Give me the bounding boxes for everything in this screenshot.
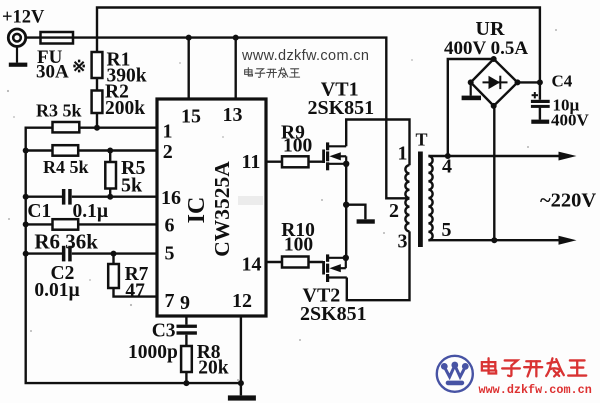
svg-text:2: 2 [163, 141, 173, 163]
svg-text:2SK851: 2SK851 [300, 303, 367, 325]
junction left bus / pin5 line [23, 251, 29, 257]
junction C4 positive / top rail [537, 79, 543, 85]
capacitor C4 plates [531, 100, 550, 108]
svg-text:~220V: ~220V [540, 190, 596, 212]
wire: pin14 gate line through R10 [266, 261, 323, 263]
svg-text:0.1µ: 0.1µ [73, 201, 109, 222]
svg-text:14: 14 [242, 254, 262, 276]
resistor R7 [108, 264, 119, 288]
ground bar at pin12 [228, 395, 256, 400]
wire: bridge bottom vertex drop to pin5 line [493, 106, 495, 240]
wire: pin16 line right of C1 [72, 195, 157, 197]
svg-text:13: 13 [223, 104, 243, 126]
svg-text:1: 1 [163, 121, 173, 143]
wire: R1-R2 chain column [96, 52, 98, 128]
junction bridge top vertex [491, 56, 497, 62]
resistor R2 [92, 91, 103, 114]
svg-text:CW3525A: CW3525A [210, 161, 234, 257]
junction source bus ground tap [343, 202, 349, 208]
svg-text:R3 5k: R3 5k [36, 101, 82, 121]
svg-text:200k: 200k [105, 98, 145, 119]
transformer T primary winding [405, 165, 409, 198]
svg-text:30A: 30A [36, 62, 69, 83]
svg-text:C3: C3 [152, 321, 176, 342]
junction pin13 on +12V line [233, 35, 239, 41]
svg-text:2SK851: 2SK851 [308, 97, 375, 119]
ground bar under C4 [531, 120, 549, 124]
wire: C3 to R8 [185, 335, 187, 346]
wire: common source column VT1-VT2 [345, 164, 347, 258]
wire: pin9 to C3 [185, 316, 187, 325]
wire: VT2 drain down and over to primary pin3 [347, 231, 410, 300]
svg-text:100: 100 [283, 136, 312, 157]
svg-text:0.01µ: 0.01µ [34, 280, 79, 301]
wire: pin6 line with R6 [26, 223, 157, 225]
C4 plus sign [532, 92, 538, 98]
wire: source ground tap [346, 205, 365, 220]
wire: pin5 line right of C2 [72, 252, 157, 254]
logo circle [437, 356, 473, 392]
IC U1 CW3525A body [157, 99, 266, 316]
capacitor C3 plates [177, 325, 197, 335]
wire: +12V line from connector through fuse to transformer centre-tap column [26, 38, 410, 199]
svg-text:2: 2 [389, 200, 399, 222]
transformer T core [418, 152, 423, 248]
wire: pin2 line with R4 [26, 149, 157, 151]
junction bridge bottom vertex [491, 103, 497, 109]
transistor Q1 VT1 2SK851 [322, 142, 329, 170]
wire: pin13 drop from +12V rail [234, 38, 236, 100]
resistor R1 [92, 52, 103, 78]
arrow output pin5 [559, 236, 577, 245]
resistor R10 [282, 257, 309, 268]
logo CJK 电子开发王 red large [482, 358, 586, 376]
arrow output pin4 [559, 152, 577, 161]
fuse FU [41, 32, 74, 44]
svg-text:IC: IC [184, 197, 210, 224]
svg-text:C4: C4 [552, 72, 573, 91]
resistor R9 [282, 156, 309, 167]
svg-text:UR: UR [476, 18, 505, 40]
junction R8 bottom on ground rail [183, 380, 189, 386]
junction VT1 source [343, 161, 349, 167]
junction left bus / pin2 line [23, 148, 29, 154]
svg-text:1000p: 1000p [128, 342, 178, 363]
wire: R5 column [109, 151, 111, 197]
svg-text:7: 7 [165, 290, 175, 312]
wire: VT1 drain up and over to primary pin1 [346, 120, 409, 166]
ground bar at common sources [357, 219, 375, 223]
resistor R3 [53, 122, 80, 132]
resistor R6 [53, 219, 79, 230]
junction pin5 output / bridge AC2 [491, 237, 497, 243]
transistor Q2 VT2 2SK851 [322, 254, 329, 282]
junction R5 bottom [107, 194, 113, 200]
junction bridge right vertex [515, 79, 521, 85]
svg-text:20k: 20k [198, 358, 229, 379]
svg-text:9: 9 [180, 292, 190, 314]
svg-text:12: 12 [232, 290, 252, 312]
wire: pin15 drop from +12V rail [187, 38, 189, 100]
svg-text:5: 5 [165, 243, 175, 265]
svg-text:400V: 400V [551, 111, 590, 130]
svg-text:3: 3 [398, 231, 408, 253]
wire: secondary pin5 output line [428, 239, 562, 241]
junction pin4 output / bridge AC1 [445, 153, 451, 159]
resistor R4 [53, 145, 79, 156]
wire: R8 to ground rail [185, 372, 187, 383]
wire: pin12 drop to ground [240, 316, 242, 395]
svg-text:5k: 5k [121, 175, 143, 197]
junction left bus / pin6 line [23, 221, 29, 227]
junction pin15 on +12V line [186, 35, 192, 41]
rectifier UR bridge diamond [471, 59, 518, 106]
watermark CJK 电子开发王 small [245, 68, 300, 78]
svg-text:C1: C1 [27, 201, 51, 222]
svg-text:T: T [416, 130, 428, 150]
svg-text:5: 5 [442, 219, 452, 241]
logo W mark [444, 365, 465, 376]
svg-text:100: 100 [284, 235, 313, 256]
capacitor C2 plates [62, 246, 72, 262]
svg-text:1: 1 [398, 143, 408, 165]
junction left bus / pin16 line [23, 194, 29, 200]
wire: pin16 line left of C1 [26, 195, 63, 197]
svg-text:4: 4 [442, 156, 452, 178]
junction bridge left vertex [468, 79, 474, 85]
junction R5 top [107, 148, 113, 154]
junction VT2 source [343, 255, 349, 261]
svg-text:R6 36k: R6 36k [34, 230, 98, 254]
svg-text:R4 5k: R4 5k [43, 157, 89, 177]
svg-text:15: 15 [181, 106, 201, 128]
ground bar under connector [9, 46, 28, 67]
connector +12V input jack [8, 29, 25, 46]
svg-text:47: 47 [125, 281, 145, 302]
capacitor C1 plates [62, 189, 72, 205]
svg-text:※: ※ [72, 57, 86, 76]
resistor R8 [181, 346, 192, 372]
wire: top feedback rail from R1 top to C4 column [97, 8, 540, 100]
wire: pin4 riser to bridge top vertex [448, 59, 494, 156]
junction R7 top [111, 251, 117, 257]
svg-text:400V 0.5A: 400V 0.5A [444, 38, 528, 59]
ground bar at bridge left vertex [462, 82, 481, 100]
svg-text:11: 11 [242, 151, 261, 173]
diode inside bridge [483, 76, 508, 89]
wire: R7 column and pin7 line [114, 254, 158, 297]
resistor R5 [105, 162, 116, 189]
wire: pin11 gate line through R9 [266, 160, 323, 162]
wire: pin1 line with R3 [26, 128, 241, 383]
svg-text:www.dzkfw.com.cn: www.dzkfw.com.cn [479, 383, 592, 397]
svg-text:6: 6 [165, 215, 175, 237]
junction R2 bottom / pin1 line [94, 125, 100, 131]
svg-text:+12V: +12V [2, 8, 45, 28]
svg-text:16: 16 [161, 187, 181, 209]
svg-text:www.dzkfw.com.cn: www.dzkfw.com.cn [241, 48, 369, 64]
wire: pin5 line left of C2 [26, 252, 63, 254]
junction pin12 on ground rail [238, 380, 244, 386]
wire: bridge right vertex to C4 column [518, 81, 540, 83]
transformer T secondary winding [428, 156, 432, 240]
wire: secondary pin4 output line [428, 155, 562, 157]
wire: C4 lower lead [539, 107, 541, 119]
